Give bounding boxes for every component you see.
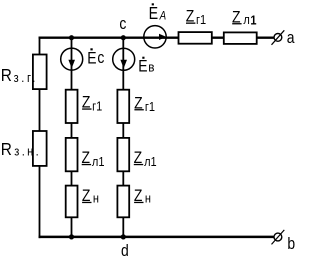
source EC label xyxy=(87,48,104,68)
wire branch 1 (Ec) xyxy=(71,37,73,239)
impedance Zg1 branch1 box xyxy=(66,90,78,123)
source EB label xyxy=(138,57,155,76)
source EA arrow xyxy=(159,34,166,40)
svg-text:d: d xyxy=(121,242,129,261)
node d junction dot xyxy=(121,234,126,239)
svg-text:a: a xyxy=(287,29,295,48)
junction dot branch1 bottom xyxy=(69,234,74,239)
svg-text:г1: г1 xyxy=(145,99,155,114)
impedance Zn branch1 label xyxy=(82,187,99,206)
svg-text:г1: г1 xyxy=(196,12,206,27)
svg-text:л1: л1 xyxy=(144,154,157,169)
wire left branch (R zg / R zn) xyxy=(39,37,41,239)
svg-text:л1: л1 xyxy=(92,154,105,169)
node c junction dot xyxy=(121,35,126,40)
svg-text:E: E xyxy=(149,4,159,24)
resistor R z.n. label xyxy=(1,140,41,159)
impedance Zl1 branch2 label xyxy=(134,149,157,169)
svg-text:E: E xyxy=(138,57,147,76)
source EA label xyxy=(149,3,167,23)
svg-text:R: R xyxy=(1,140,12,159)
svg-text:c: c xyxy=(119,15,126,34)
source EB circle xyxy=(113,48,135,70)
svg-text:c: c xyxy=(97,49,104,68)
svg-text:н: н xyxy=(93,191,99,206)
resistor R z.n. box xyxy=(33,131,47,166)
svg-text:A: A xyxy=(159,10,166,23)
svg-text:R: R xyxy=(1,66,12,85)
impedance Zg1 branch1 label xyxy=(82,93,103,113)
wire branch 2 (Eb) xyxy=(122,37,124,239)
source EA circle xyxy=(144,26,166,48)
svg-text:з.г.: з.г. xyxy=(14,70,38,85)
svg-text:л: л xyxy=(243,12,249,27)
impedance Zl1 top label xyxy=(232,8,257,28)
impedance Zn branch2 box xyxy=(117,186,129,218)
terminal a symbol xyxy=(272,30,285,45)
impedance Zl1 branch1 label xyxy=(82,149,105,169)
terminal b symbol xyxy=(272,230,285,245)
source EC arrow xyxy=(68,60,75,68)
impedance Zl1 branch1 box xyxy=(66,138,78,171)
impedance Zl1 branch2 box xyxy=(117,138,129,171)
impedance Zg1 branch2 label xyxy=(134,94,155,114)
svg-text:в: в xyxy=(148,60,155,75)
source EC circle xyxy=(61,48,83,70)
resistor R z.g. box xyxy=(33,55,47,90)
impedance Zl1 top box xyxy=(224,32,257,44)
svg-text:E: E xyxy=(87,49,96,68)
svg-text:н: н xyxy=(145,191,151,206)
resistor R z.g. label xyxy=(1,66,38,85)
wire top bus c-to-a xyxy=(39,37,274,39)
svg-text:з.н.: з.н. xyxy=(14,144,41,159)
svg-text:1: 1 xyxy=(250,13,256,28)
svg-text:b: b xyxy=(287,235,295,254)
source EB arrow xyxy=(120,60,127,68)
impedance Zg1 top label xyxy=(186,7,207,27)
junction dot branch1 top xyxy=(69,35,74,40)
svg-text:г1: г1 xyxy=(92,99,102,114)
impedance Zn branch1 box xyxy=(66,186,78,218)
wire bottom bus d-to-b xyxy=(39,236,274,239)
impedance Zg1 branch2 box xyxy=(117,90,129,123)
impedance Zn branch2 label xyxy=(134,187,151,206)
impedance Zg1 top box xyxy=(179,32,212,44)
